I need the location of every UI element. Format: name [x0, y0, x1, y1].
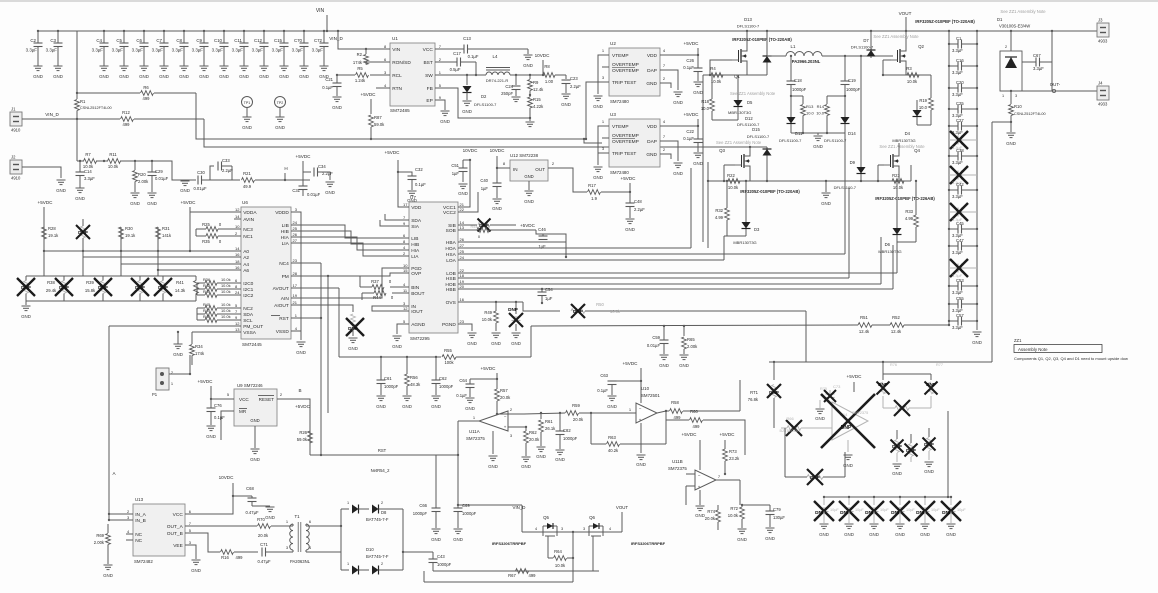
svg-text:3.3µF: 3.3µF [1033, 66, 1044, 71]
svg-text:23: 23 [293, 258, 298, 263]
svg-text:A6: A6 [243, 268, 249, 274]
svg-text:T1: T1 [294, 514, 300, 519]
svg-text:C53: C53 [956, 278, 964, 283]
svg-text:GND: GND [492, 206, 502, 211]
svg-text:3.3µF: 3.3µF [952, 160, 963, 165]
svg-text:1000pF: 1000pF [439, 384, 454, 389]
svg-text:+5VDC: +5VDC [720, 432, 736, 437]
svg-text:Q4: Q4 [914, 148, 920, 153]
svg-text:10.0k: 10.0k [221, 283, 231, 288]
svg-text:3: 3 [583, 527, 585, 531]
svg-text:SM72501: SM72501 [641, 393, 660, 398]
svg-text:3.3µF: 3.3µF [192, 48, 204, 53]
svg-text:RST: RST [378, 448, 387, 453]
svg-text:20.0k: 20.0k [500, 395, 511, 400]
svg-text:12.4k: 12.4k [533, 87, 544, 92]
svg-text:10.0k: 10.0k [108, 164, 119, 169]
svg-text:U13: U13 [135, 497, 144, 502]
svg-text:GND: GND [279, 74, 289, 79]
svg-text:TP1: TP1 [244, 101, 251, 105]
svg-text:20.0k: 20.0k [573, 417, 584, 422]
svg-text:−: − [639, 406, 642, 411]
svg-text:C68: C68 [246, 486, 254, 491]
svg-text:C63: C63 [600, 373, 608, 378]
svg-text:141k: 141k [162, 233, 172, 238]
svg-text:12: 12 [403, 306, 408, 311]
svg-text:U3: U3 [610, 112, 616, 117]
svg-text:GND: GND [376, 404, 386, 409]
svg-text:24: 24 [235, 290, 240, 295]
svg-text:DR74-221-R: DR74-221-R [486, 78, 509, 83]
svg-text:OUT_B: OUT_B [167, 531, 183, 537]
svg-text:VSSA: VSSA [243, 330, 257, 336]
svg-text:4: 4 [609, 527, 611, 531]
svg-text:+5VDC: +5VDC [385, 150, 401, 155]
svg-text:Components Q1, Q2, Q3, Q4 and: Components Q1, Q2, Q3, Q4 and D1 need to… [1014, 356, 1128, 361]
svg-text:29.4k: 29.4k [46, 288, 57, 293]
svg-text:CSNL2512FT4L00: CSNL2512FT4L00 [80, 106, 112, 110]
svg-text:GND: GND [462, 109, 472, 114]
svg-text:C17: C17 [453, 51, 461, 56]
svg-text:LIB: LIB [282, 223, 289, 229]
svg-text:LIB: LIB [411, 236, 418, 242]
svg-text:+5VDC: +5VDC [520, 223, 536, 228]
svg-text:R70: R70 [257, 517, 265, 522]
svg-text:+5VDC: +5VDC [361, 92, 377, 97]
svg-text:DNP: DNP [21, 285, 31, 290]
svg-text:GND: GND [250, 418, 259, 423]
svg-text:40.2k: 40.2k [608, 448, 619, 453]
svg-text:GND: GND [242, 125, 252, 130]
svg-text:GND: GND [75, 196, 85, 201]
svg-text:+5VDC: +5VDC [181, 200, 197, 205]
svg-text:H: H [284, 166, 287, 171]
svg-text:R37: R37 [371, 279, 379, 284]
svg-text:C73: C73 [833, 384, 841, 389]
svg-text:GND: GND [275, 125, 285, 130]
svg-text:C67: C67 [1033, 53, 1041, 58]
svg-text:3: 3 [561, 527, 563, 531]
svg-text:DAP: DAP [647, 68, 657, 74]
svg-text:SOB: SOB [446, 228, 456, 234]
svg-text:DNP: DNP [98, 285, 108, 290]
svg-text:R36: R36 [203, 277, 210, 282]
svg-text:C51: C51 [451, 163, 459, 168]
svg-text:GND: GND [103, 573, 113, 578]
svg-text:BST: BST [423, 60, 432, 66]
svg-text:16: 16 [235, 265, 240, 270]
svg-text:DFLS1100-7: DFLS1100-7 [824, 138, 847, 143]
svg-text:R51: R51 [860, 315, 868, 320]
svg-text:HBA: HBA [446, 240, 457, 246]
svg-text:3.3µF: 3.3µF [312, 48, 324, 53]
svg-text:C9: C9 [196, 38, 202, 43]
svg-text:250pF: 250pF [501, 91, 513, 96]
svg-text:1000pF: 1000pF [792, 87, 807, 92]
svg-text:R28: R28 [48, 226, 56, 231]
svg-text:DNP: DNP [769, 390, 779, 395]
svg-text:GND: GND [659, 363, 669, 368]
svg-text:D5: D5 [747, 100, 753, 105]
svg-text:GND: GND [259, 74, 269, 79]
svg-text:BIN: BIN [411, 285, 420, 291]
svg-text:3.3µF: 3.3µF [952, 92, 963, 97]
svg-text:GND: GND [821, 201, 831, 206]
svg-text:10.0k: 10.0k [221, 302, 231, 307]
svg-text:1.9: 1.9 [591, 196, 597, 201]
svg-text:I2C1: I2C1 [243, 287, 253, 293]
svg-text:10.0: 10.0 [919, 105, 928, 110]
svg-text:DFLS1100-7: DFLS1100-7 [834, 185, 857, 190]
svg-text:26: 26 [293, 232, 298, 237]
svg-text:3.3µF: 3.3µF [952, 194, 963, 199]
svg-text:R60: R60 [690, 409, 698, 414]
svg-text:GND: GND [673, 171, 683, 176]
svg-text:15.8k: 15.8k [85, 288, 96, 293]
svg-text:C6: C6 [136, 38, 142, 43]
svg-text:VIN: VIN [316, 8, 325, 14]
svg-text:10.0k: 10.0k [221, 277, 231, 282]
svg-text:4910: 4910 [11, 128, 21, 133]
svg-text:Q5: Q5 [543, 515, 549, 520]
svg-text:R35: R35 [202, 239, 210, 244]
svg-text:VIN_D: VIN_D [329, 36, 343, 41]
svg-text:+: + [639, 418, 642, 423]
svg-text:RTN: RTN [392, 86, 402, 92]
svg-text:20.0k: 20.0k [705, 516, 716, 521]
svg-text:C43: C43 [437, 554, 445, 559]
svg-text:GND: GND [869, 532, 879, 537]
svg-text:Q2: Q2 [918, 44, 924, 49]
svg-text:HIA: HIA [411, 248, 420, 254]
svg-text:3.3µF: 3.3µF [152, 48, 164, 53]
svg-text:AGND: AGND [411, 322, 425, 328]
svg-text:10µF: 10µF [957, 508, 966, 512]
svg-text:C23: C23 [570, 76, 578, 81]
svg-text:GND: GND [737, 537, 747, 542]
svg-text:D15: D15 [752, 127, 760, 132]
svg-text:C15: C15 [274, 38, 283, 43]
svg-text:3.3µF: 3.3µF [132, 48, 144, 53]
svg-text:GND: GND [296, 350, 306, 355]
svg-text:GND: GND [972, 340, 982, 345]
svg-text:CSNL2512FT4L00: CSNL2512FT4L00 [1014, 112, 1046, 116]
svg-text:1000pF: 1000pF [437, 562, 452, 567]
svg-text:IOUT: IOUT [411, 309, 423, 315]
svg-text:59.0k: 59.0k [374, 122, 385, 127]
svg-text:1: 1 [347, 562, 349, 566]
svg-text:+5VDC: +5VDC [296, 154, 312, 159]
svg-text:D6: D6 [885, 242, 891, 247]
svg-text:SM72375: SM72375 [466, 436, 485, 441]
svg-text:VEE: VEE [173, 543, 183, 549]
svg-text:DFLS1100-7: DFLS1100-7 [737, 24, 760, 29]
svg-text:12: 12 [235, 207, 240, 212]
svg-text:U12 SM72238: U12 SM72238 [510, 153, 539, 158]
svg-text:R55: R55 [444, 348, 452, 353]
svg-text:0.01µF: 0.01µF [307, 192, 321, 197]
svg-text:NC3: NC3 [243, 227, 253, 233]
svg-text:C31: C31 [292, 188, 300, 193]
svg-text:MBR130T3G: MBR130T3G [728, 110, 751, 115]
svg-text:4.99: 4.99 [905, 216, 914, 221]
svg-text:GND: GND [159, 74, 169, 79]
svg-text:R38: R38 [47, 280, 55, 285]
svg-text:C18: C18 [794, 78, 802, 83]
svg-text:12.4k: 12.4k [891, 329, 902, 334]
svg-text:R58: R58 [671, 400, 679, 405]
svg-text:0.01µF: 0.01µF [193, 186, 207, 191]
svg-text:NC4: NC4 [279, 261, 289, 267]
svg-text:GND: GND [348, 346, 358, 351]
svg-text:C3: C3 [50, 38, 56, 43]
svg-text:R4: R4 [710, 66, 716, 71]
svg-text:R87: R87 [374, 115, 382, 120]
svg-text:GND: GND [56, 188, 66, 193]
svg-text:GND: GND [607, 404, 617, 409]
svg-text:HIB: HIB [411, 242, 419, 248]
svg-text:10.0: 10.0 [701, 106, 710, 111]
svg-text:2: 2 [381, 562, 383, 566]
svg-text:3.3µF: 3.3µF [252, 48, 264, 53]
svg-text:13: 13 [460, 225, 465, 230]
svg-text:1µF: 1µF [481, 186, 489, 191]
svg-text:U11B: U11B [672, 459, 683, 464]
svg-text:GND: GND [695, 513, 705, 518]
svg-text:3.3µF: 3.3µF [952, 250, 963, 255]
svg-text:LIA: LIA [411, 254, 419, 260]
svg-text:C1: C1 [956, 36, 962, 41]
svg-text:IRFS3206TRRPBF: IRFS3206TRRPBF [492, 541, 527, 546]
svg-text:1µF: 1µF [452, 171, 460, 176]
svg-text:U1: U1 [392, 36, 398, 41]
svg-text:GND: GND [407, 198, 417, 203]
svg-text:GND: GND [693, 161, 703, 166]
svg-text:R47: R47 [203, 308, 210, 313]
svg-text:R12: R12 [122, 110, 130, 115]
svg-text:24: 24 [293, 220, 298, 225]
svg-text:See ZZ1 Assembly Note: See ZZ1 Assembly Note [873, 34, 919, 39]
svg-text:19.1k: 19.1k [125, 233, 136, 238]
svg-text:R17: R17 [588, 183, 596, 188]
svg-text:R9: R9 [533, 80, 539, 85]
svg-text:V30100S-E3/4W: V30100S-E3/4W [999, 24, 1030, 29]
svg-text:20.0k: 20.0k [258, 533, 269, 538]
svg-text:R7: R7 [85, 152, 91, 157]
svg-text:D10: D10 [366, 547, 374, 552]
svg-text:C47: C47 [956, 238, 964, 243]
svg-text:C13: C13 [463, 36, 471, 41]
svg-text:GND: GND [646, 152, 657, 158]
svg-text:100k: 100k [444, 360, 454, 365]
svg-text:GND: GND [536, 454, 546, 459]
svg-text:HSB: HSB [446, 276, 456, 282]
svg-text:19: 19 [293, 293, 298, 298]
svg-text:SDA: SDA [243, 312, 254, 318]
svg-text:0.1µF: 0.1µF [597, 388, 608, 393]
svg-text:DNP: DNP [840, 510, 850, 515]
svg-text:C14: C14 [84, 169, 92, 174]
svg-text:10µF: 10µF [830, 508, 839, 512]
svg-text:I2C0: I2C0 [243, 281, 253, 287]
svg-text:DFLS1100-7: DFLS1100-7 [747, 134, 770, 139]
svg-text:3.3µF: 3.3µF [84, 176, 95, 181]
svg-text:0.1µF: 0.1µF [683, 65, 694, 70]
svg-text:R45: R45 [203, 302, 210, 307]
svg-text:0.47µF: 0.47µF [257, 559, 271, 564]
svg-text:4.99: 4.99 [715, 215, 724, 220]
svg-text:AIOUT: AIOUT [274, 303, 289, 309]
svg-text:DNP: DNP [906, 448, 916, 453]
svg-text:R63: R63 [608, 435, 616, 440]
svg-text:C46: C46 [538, 227, 546, 232]
svg-text:174k: 174k [353, 60, 363, 65]
svg-text:RESET: RESET [259, 397, 275, 402]
svg-text:1: 1 [347, 501, 349, 505]
svg-text:OUT_A: OUT_A [167, 524, 184, 530]
svg-text:C7: C7 [156, 38, 162, 43]
svg-text:SIA: SIA [411, 224, 420, 230]
svg-text:GND: GND [465, 406, 475, 411]
svg-text:D1: D1 [997, 17, 1003, 22]
svg-text:10µF: 10µF [855, 508, 864, 512]
svg-text:B: B [298, 388, 301, 393]
svg-text:26: 26 [460, 237, 465, 242]
svg-text:OVERTEMP: OVERTEMP [612, 139, 639, 145]
svg-text:DNP: DNP [815, 510, 825, 515]
svg-text:C48: C48 [634, 199, 642, 204]
svg-text:C11: C11 [234, 38, 242, 43]
svg-text:10.0: 10.0 [816, 111, 825, 116]
svg-text:C40: C40 [480, 178, 488, 183]
svg-text:GND: GND [206, 434, 216, 439]
svg-text:23.2k: 23.2k [729, 456, 740, 461]
svg-text:GND: GND [524, 174, 533, 179]
svg-text:VDD: VDD [647, 53, 658, 59]
svg-text:76.8k: 76.8k [748, 397, 759, 402]
svg-text:GND: GND [924, 469, 934, 474]
svg-text:C57: C57 [956, 313, 964, 318]
svg-text:VDDD: VDDD [275, 210, 289, 216]
svg-text:R41: R41 [176, 280, 184, 285]
svg-text:2: 2 [1005, 45, 1007, 49]
svg-text:R66: R66 [786, 416, 794, 421]
svg-text:C5: C5 [116, 38, 122, 43]
svg-text:NC1: NC1 [243, 234, 253, 240]
svg-text:ZZ1: ZZ1 [1014, 338, 1022, 343]
svg-text:SM72445: SM72445 [242, 342, 262, 347]
svg-text:R56: R56 [410, 375, 418, 380]
svg-text:3.3µF: 3.3µF [26, 48, 38, 53]
svg-text:GND: GND [646, 81, 657, 87]
svg-text:0.1µF: 0.1µF [468, 54, 479, 59]
svg-text:1000pF: 1000pF [413, 511, 428, 516]
svg-text:OVERTEMP: OVERTEMP [612, 133, 639, 139]
svg-text:1000pF: 1000pF [563, 436, 578, 441]
svg-text:R69: R69 [96, 533, 104, 538]
svg-text:C66: C66 [419, 503, 427, 508]
svg-text:AVIN: AVIN [243, 217, 254, 223]
svg-text:NetR54_2: NetR54_2 [371, 468, 391, 473]
svg-text:10VDC: 10VDC [535, 53, 550, 58]
svg-text:3.3µF: 3.3µF [952, 290, 963, 295]
svg-text:4: 4 [535, 527, 537, 531]
svg-text:GND: GND [523, 63, 533, 68]
svg-text:C25: C25 [956, 101, 964, 106]
svg-text:C45: C45 [956, 221, 964, 226]
svg-text:Q6: Q6 [589, 515, 595, 520]
svg-text:GND: GND [521, 464, 531, 469]
svg-text:C4: C4 [96, 38, 102, 43]
svg-text:R75: R75 [820, 387, 827, 391]
svg-text:HSA: HSA [446, 252, 457, 258]
svg-text:VOUT: VOUT [899, 11, 912, 16]
svg-text:10VDC: 10VDC [463, 148, 478, 153]
svg-text:IRF3205Z-010PBF (TO-226AB): IRF3205Z-010PBF (TO-226AB) [875, 196, 935, 201]
svg-text:DNP: DNP [135, 285, 145, 290]
svg-text:26.1k: 26.1k [545, 426, 556, 431]
svg-text:VTEMP: VTEMP [612, 53, 629, 59]
svg-text:See ZZ1 Assembly Note: See ZZ1 Assembly Note [716, 140, 762, 145]
svg-text:RCL: RCL [392, 73, 402, 79]
svg-text:+5VDC: +5VDC [38, 200, 54, 205]
svg-text:GND: GND [946, 532, 956, 537]
svg-text:DFLS1100-7: DFLS1100-7 [779, 138, 802, 143]
svg-text:18: 18 [460, 273, 465, 278]
svg-text:R3: R3 [906, 66, 912, 71]
svg-text:174k: 174k [195, 351, 205, 356]
svg-text:C33: C33 [222, 158, 230, 163]
svg-text:19.1k: 19.1k [48, 233, 59, 238]
svg-text:16: 16 [460, 297, 465, 302]
svg-text:R49: R49 [484, 310, 492, 315]
svg-text:C61: C61 [384, 376, 392, 381]
svg-text:0.1µF: 0.1µF [214, 415, 225, 420]
svg-text:GND: GND [920, 532, 930, 537]
svg-text:10.0k: 10.0k [610, 309, 621, 314]
svg-text:TRIP TEST: TRIP TEST [612, 151, 636, 157]
svg-text:See ZZ1 Assembly Note: See ZZ1 Assembly Note [1000, 9, 1046, 14]
svg-text:DNP: DNP [916, 510, 926, 515]
svg-text:24: 24 [460, 255, 465, 260]
svg-text:See ZZ1 Assembly Note: See ZZ1 Assembly Note [730, 91, 776, 96]
svg-text:A0: A0 [243, 249, 249, 255]
svg-text:C2: C2 [30, 38, 36, 43]
svg-text:R33: R33 [905, 209, 913, 214]
svg-text:DNP: DNP [926, 382, 936, 387]
svg-text:SM72480: SM72480 [610, 99, 629, 104]
svg-text:R13: R13 [806, 104, 814, 109]
svg-text:3.3µF: 3.3µF [272, 48, 284, 53]
svg-text:14: 14 [235, 214, 240, 219]
svg-text:U6: U6 [242, 200, 248, 205]
svg-text:+5VDC: +5VDC [623, 361, 639, 366]
svg-text:+5VDC: +5VDC [295, 404, 311, 409]
svg-text:GND: GND [693, 90, 703, 95]
svg-text:130µF: 130µF [773, 515, 785, 520]
svg-text:R20: R20 [138, 172, 146, 177]
svg-text:20: 20 [460, 284, 465, 289]
svg-text:PA2966.203NL: PA2966.203NL [792, 59, 821, 64]
svg-text:25: 25 [460, 249, 465, 254]
svg-text:R61: R61 [545, 419, 553, 424]
svg-text:VCC: VCC [423, 47, 434, 53]
svg-text:GND: GND [895, 532, 905, 537]
svg-text:R11: R11 [109, 152, 117, 157]
svg-text:+5VDC: +5VDC [198, 379, 214, 384]
svg-text:C27: C27 [956, 118, 964, 123]
svg-text:499: 499 [123, 122, 131, 127]
